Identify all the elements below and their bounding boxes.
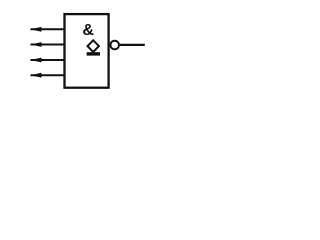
input wire C with arrowhead — [30, 58, 64, 63]
input wire B with arrowhead — [30, 42, 64, 47]
output inversion bubble — [110, 41, 119, 50]
input wire D with arrowhead — [30, 73, 64, 78]
svg-text:&: & — [82, 22, 94, 39]
gate body U1 (4-input AND, IEC rectangular outline) — [65, 14, 109, 88]
input wire A with arrowhead — [30, 27, 64, 32]
output wire Y — [120, 44, 145, 46]
open-collector output qualifier (underlined diamond) — [87, 40, 100, 55]
